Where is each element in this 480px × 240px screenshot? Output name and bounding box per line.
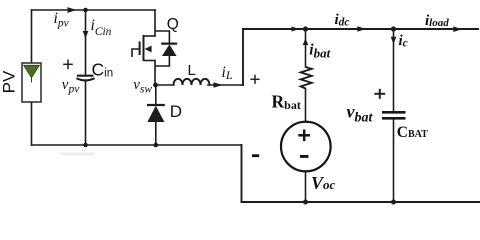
node junction D bottom xyxy=(154,143,159,148)
arrow i_c xyxy=(391,37,397,45)
svg-text:vsw: vsw xyxy=(133,77,152,96)
svg-text:CBAT: CBAT xyxy=(397,124,428,141)
svg-text:ic: ic xyxy=(399,33,408,49)
node junction Voc bottom xyxy=(303,200,308,205)
svg-text:iload: iload xyxy=(425,13,449,29)
PV module PV xyxy=(22,63,41,102)
resistor Rbat xyxy=(301,67,312,89)
svg-text:vbat: vbat xyxy=(347,102,374,126)
node junction CBAT top xyxy=(391,26,396,31)
wire bottom rail right xyxy=(242,201,480,203)
wire bottom rail drop at minus terminal xyxy=(241,145,243,202)
label + of v_pv xyxy=(63,60,73,70)
transistor Q1 MOSFET xyxy=(132,35,155,61)
capacitor C1 Cin xyxy=(77,76,95,81)
node junction CBAT bottom xyxy=(391,200,396,205)
wire source to v_sw node xyxy=(154,61,156,86)
wire Voc to bottom rail xyxy=(305,171,307,202)
svg-text:Voc: Voc xyxy=(311,173,336,193)
wire output riser up to top rail right xyxy=(242,29,244,85)
source Voc xyxy=(281,122,331,172)
wire drain riser Q xyxy=(154,10,156,36)
node junction Cin top xyxy=(83,8,88,13)
wire top rail left xyxy=(32,9,156,11)
arrow i_pv xyxy=(68,7,77,13)
svg-text:iL: iL xyxy=(222,64,233,82)
wire v_sw to inductor xyxy=(156,84,175,86)
label - output terminal xyxy=(252,154,259,157)
wire top rail right xyxy=(243,28,478,30)
arrow i_L xyxy=(214,82,223,87)
node junction Cin bottom xyxy=(83,143,88,148)
arrow i_dc xyxy=(357,26,366,32)
svg-text:Q: Q xyxy=(167,16,179,33)
svg-text:Rbat: Rbat xyxy=(272,92,301,113)
wire Rbat to Voc xyxy=(305,89,307,123)
svg-text:PV: PV xyxy=(0,70,19,93)
wire rail to Rbat xyxy=(305,29,307,67)
arrow into battery node xyxy=(292,27,300,32)
diode body diode of Q xyxy=(155,31,177,66)
arrow i_load xyxy=(453,26,462,32)
wire inductor to output riser xyxy=(208,84,243,86)
svg-text:ibat: ibat xyxy=(309,41,330,60)
diode D xyxy=(147,105,165,122)
inductor L1 L xyxy=(174,79,210,85)
svg-text:D: D xyxy=(170,102,182,121)
node junction Rbat top xyxy=(303,26,308,31)
wire CBAT to bottom rail xyxy=(393,119,395,203)
svg-text:iCin: iCin xyxy=(91,17,112,38)
svg-text:idc: idc xyxy=(335,12,350,28)
wire bottom rail left xyxy=(32,144,242,146)
wire rail to CBAT xyxy=(393,29,395,112)
wire PV bottom to bottom rail xyxy=(31,102,33,145)
label + output terminal xyxy=(250,75,259,84)
capacitor CBAT xyxy=(382,112,406,118)
label + of v_bat xyxy=(374,89,385,99)
arrow i_Cin xyxy=(83,31,89,39)
svg-text:L: L xyxy=(188,62,196,79)
wire v_sw to diode D xyxy=(155,85,157,105)
arrow i_bat xyxy=(303,38,309,45)
label - inside Voc xyxy=(300,155,308,158)
wire Cin branch upper xyxy=(85,10,87,76)
wire Cin branch lower xyxy=(85,80,87,145)
node v_sw xyxy=(153,83,158,88)
svg-text:ipv: ipv xyxy=(54,10,70,29)
faint erased mark under bottom rail xyxy=(60,153,95,156)
wire diode D to bottom rail xyxy=(155,122,157,145)
label + inside Voc xyxy=(298,130,310,142)
svg-text:vpv: vpv xyxy=(62,77,80,95)
wire PV top to top rail xyxy=(31,10,33,63)
svg-text:Cin: Cin xyxy=(92,60,114,80)
